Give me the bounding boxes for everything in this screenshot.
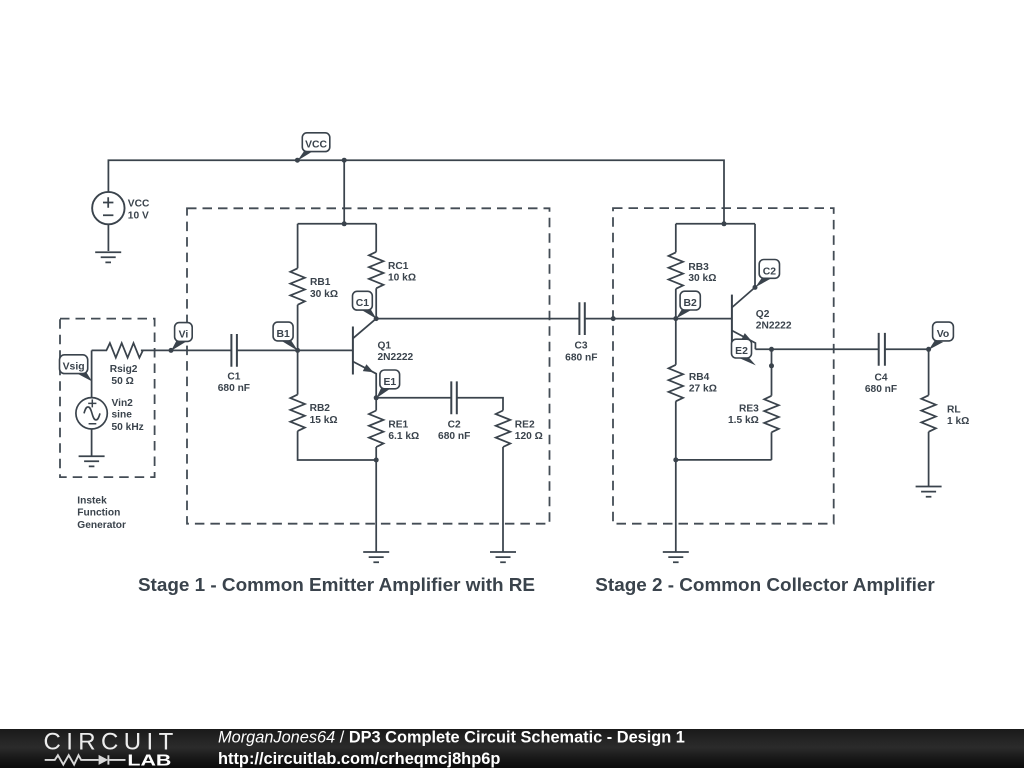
- svg-text:RB4: RB4: [689, 372, 710, 383]
- svg-text:Q1: Q1: [378, 341, 392, 352]
- wire: VCC top rail: [108, 160, 724, 224]
- ground (stage 2): [663, 552, 689, 562]
- svg-text:2N2222: 2N2222: [378, 352, 414, 363]
- node tag E2: [732, 339, 756, 365]
- resistor Rsig2 (horizontal): [92, 343, 143, 358]
- transistor Q2 2N2222: [732, 287, 756, 349]
- junction dot: node C2: [753, 285, 758, 290]
- node tag B2: [676, 291, 700, 318]
- svg-text:680 nF: 680 nF: [218, 383, 250, 394]
- wire: RB3 bottom to B2: [675, 289, 677, 319]
- svg-text:Vsig: Vsig: [63, 362, 85, 373]
- svg-text:E2: E2: [735, 346, 748, 357]
- wire: collector lead down to C2 node: [754, 224, 756, 288]
- svg-text:LAB: LAB: [127, 752, 171, 768]
- svg-text:C2: C2: [448, 419, 461, 430]
- svg-text:Function: Function: [77, 507, 120, 518]
- junction dot: node E2 out: [769, 347, 774, 352]
- wire: collector bus C1 node to C3: [376, 318, 579, 320]
- svg-text:C1: C1: [227, 371, 240, 382]
- wire: RB1 bottom lead to B1: [297, 305, 299, 351]
- junction dot: node E1: [374, 395, 379, 400]
- junction dot: stage2 top bus: [722, 221, 727, 226]
- node tag Vsig: [60, 355, 93, 382]
- wire: RE1 bottom to ground: [375, 447, 377, 552]
- svg-text:Q2: Q2: [756, 309, 770, 320]
- resistor RB4: [669, 365, 684, 402]
- wire: RE1 top lead: [375, 398, 377, 411]
- capacitor C4: [879, 333, 885, 366]
- svg-text:27 kΩ: 27 kΩ: [689, 384, 717, 395]
- node tag E1: [376, 370, 399, 398]
- wire: RB4 from B2 down: [675, 319, 677, 365]
- ground (RL): [916, 487, 942, 497]
- dashed box: Instek Function Generator (Vsig source): [60, 319, 155, 478]
- svg-text:E1: E1: [383, 377, 396, 388]
- svg-text:B1: B1: [276, 329, 290, 340]
- svg-text:C3: C3: [574, 341, 587, 352]
- wire: RL bottom to ground: [928, 432, 930, 487]
- svg-text:RE3: RE3: [739, 403, 759, 414]
- svg-text:RB2: RB2: [310, 403, 331, 414]
- junction dot: VCC tag pin: [295, 158, 300, 163]
- transistor Q1 2N2222: [298, 319, 377, 398]
- wire: E1 node to C2: [376, 397, 451, 399]
- svg-text:RE1: RE1: [388, 419, 408, 430]
- svg-text:30 kΩ: 30 kΩ: [688, 273, 716, 284]
- svg-text:Vin2: Vin2: [112, 398, 134, 409]
- svg-text:RE2: RE2: [515, 419, 535, 430]
- svg-text:680 nF: 680 nF: [865, 384, 897, 395]
- wire: RL top lead from Vo: [928, 349, 930, 395]
- source Vin2 sine function generator: [76, 398, 107, 429]
- wire: VCC source to ground: [107, 224, 109, 251]
- svg-text:Stage 1 - Common Emitter Ampli: Stage 1 - Common Emitter Amplifier with …: [138, 575, 535, 596]
- resistor RL: [921, 395, 936, 432]
- junction dot: node C1: [374, 316, 379, 321]
- capacitor C2: [451, 381, 457, 414]
- dashed box: Stage 1: [187, 208, 550, 523]
- ground (Vin2): [79, 456, 105, 466]
- junction dot: node B2: [673, 316, 678, 321]
- junction dot: collector bus mid: [611, 316, 616, 321]
- svg-text:C2: C2: [763, 266, 777, 277]
- wire: stage1 top bus RB1-RC1: [298, 223, 377, 225]
- svg-text:Instek: Instek: [77, 496, 107, 507]
- wire: RB1 top lead: [297, 224, 299, 268]
- svg-text:B2: B2: [684, 298, 698, 309]
- wire: RC1 top lead: [375, 224, 377, 252]
- svg-text:120 Ω: 120 Ω: [515, 431, 543, 442]
- wire: C2 to RE2: [457, 398, 503, 411]
- wire: emitter E2 node to RE3: [755, 349, 771, 396]
- svg-text:1 kΩ: 1 kΩ: [947, 416, 969, 427]
- wire: RC1 bottom lead to C1 node: [375, 288, 377, 318]
- junction dot: RE1/RB2 ground bus: [374, 458, 379, 463]
- node tag C1: [353, 291, 377, 319]
- svg-text:sine: sine: [112, 410, 133, 421]
- ground (RE2): [490, 552, 516, 562]
- CircuitLab logo resistor-diode glyph: [45, 755, 126, 764]
- resistor RE3: [764, 396, 779, 433]
- svg-text:Generator: Generator: [77, 520, 126, 531]
- svg-text:MorganJones64 / DP3 Complete C: MorganJones64 / DP3 Complete Circuit Sch…: [218, 729, 685, 747]
- wire: input node Vi to C1: [141, 349, 232, 351]
- svg-text:C1: C1: [356, 298, 370, 309]
- wire: C4 to Vo: [885, 348, 929, 350]
- resistor RB2: [290, 395, 305, 432]
- dashed box: Stage 2: [613, 208, 834, 524]
- junction dot: node Vo: [926, 347, 931, 352]
- wire: B2 to Q2 base: [676, 318, 732, 320]
- svg-text:VCC: VCC: [305, 140, 327, 151]
- svg-text:RC1: RC1: [388, 261, 409, 272]
- voltage source VCC 10V: [92, 192, 124, 224]
- wire: RB2 top lead from B1: [297, 350, 299, 394]
- wire: C3 to B2: [585, 318, 676, 320]
- resistor RB3: [669, 252, 684, 289]
- svg-text:http://circuitlab.com/crheqmcj: http://circuitlab.com/crheqmcj8hp6p: [218, 750, 500, 768]
- junction dot: RE3 top: [769, 363, 774, 368]
- wire: C1 to B1: [237, 349, 298, 351]
- wire: Rsig2 to Vin2 source: [91, 350, 93, 397]
- resistor RE2: [496, 411, 511, 448]
- junction dot: node Vi: [169, 348, 174, 353]
- ground (RE1): [363, 552, 389, 562]
- svg-text:RB1: RB1: [310, 277, 331, 288]
- node tag Vi: [171, 323, 192, 351]
- wire: RB3 top lead: [675, 224, 677, 253]
- footer bar: [0, 729, 1024, 768]
- node tag B1: [273, 322, 298, 351]
- resistor RE1: [369, 411, 384, 448]
- ground (VCC source): [95, 252, 121, 262]
- junction dot: RB4/RE3 ground bus: [673, 457, 678, 462]
- svg-text:VCC: VCC: [128, 199, 150, 210]
- svg-text:Stage 2 - Common Collector Amp: Stage 2 - Common Collector Amplifier: [595, 575, 935, 596]
- capacitor C3: [579, 302, 584, 335]
- svg-text:30 kΩ: 30 kΩ: [310, 289, 338, 300]
- svg-text:RL: RL: [947, 405, 961, 416]
- svg-text:RB3: RB3: [688, 262, 709, 273]
- wire: drop from rail into stage 1: [343, 160, 345, 224]
- wire: output bus E2 to C4: [772, 348, 879, 350]
- svg-text:6.1 kΩ: 6.1 kΩ: [388, 431, 419, 442]
- capacitor C1: [231, 334, 237, 367]
- resistor RC1: [369, 252, 384, 288]
- junction dot: stage1 top bus: [342, 221, 347, 226]
- node tag Vo: [929, 322, 954, 350]
- wire: stage2 top bus RB3 to Q2 collector: [676, 223, 755, 225]
- wire: RE3 bottom lead: [771, 432, 773, 460]
- svg-text:Vo: Vo: [937, 329, 950, 340]
- svg-text:2N2222: 2N2222: [756, 321, 792, 332]
- svg-text:15 kΩ: 15 kΩ: [310, 415, 338, 426]
- wire: RB2 bottom to emitter ground bus: [298, 431, 377, 460]
- svg-text:Rsig2: Rsig2: [110, 364, 138, 375]
- svg-text:Vi: Vi: [179, 329, 189, 340]
- svg-text:50 Ω: 50 Ω: [111, 376, 133, 387]
- svg-text:1.5 kΩ: 1.5 kΩ: [728, 415, 759, 426]
- node tag C2: [755, 260, 779, 288]
- svg-text:C4: C4: [874, 373, 887, 384]
- svg-text:10 V: 10 V: [128, 210, 149, 221]
- wire: stage2 ground stem: [675, 460, 677, 552]
- resistor RB1: [290, 268, 305, 305]
- node tag VCC: [297, 133, 329, 161]
- wire: Vin2 to ground: [91, 429, 93, 456]
- junction dot: node B1: [295, 348, 300, 353]
- wire: RB4 bottom to ground bus: [676, 401, 772, 460]
- svg-text:50 kHz: 50 kHz: [112, 422, 144, 433]
- svg-text:10 kΩ: 10 kΩ: [388, 273, 416, 284]
- wire: RE2 bottom to ground: [502, 447, 504, 552]
- junction dot: rail to stage1 drop: [342, 158, 347, 163]
- svg-text:680 nF: 680 nF: [438, 431, 470, 442]
- svg-text:680 nF: 680 nF: [565, 352, 597, 363]
